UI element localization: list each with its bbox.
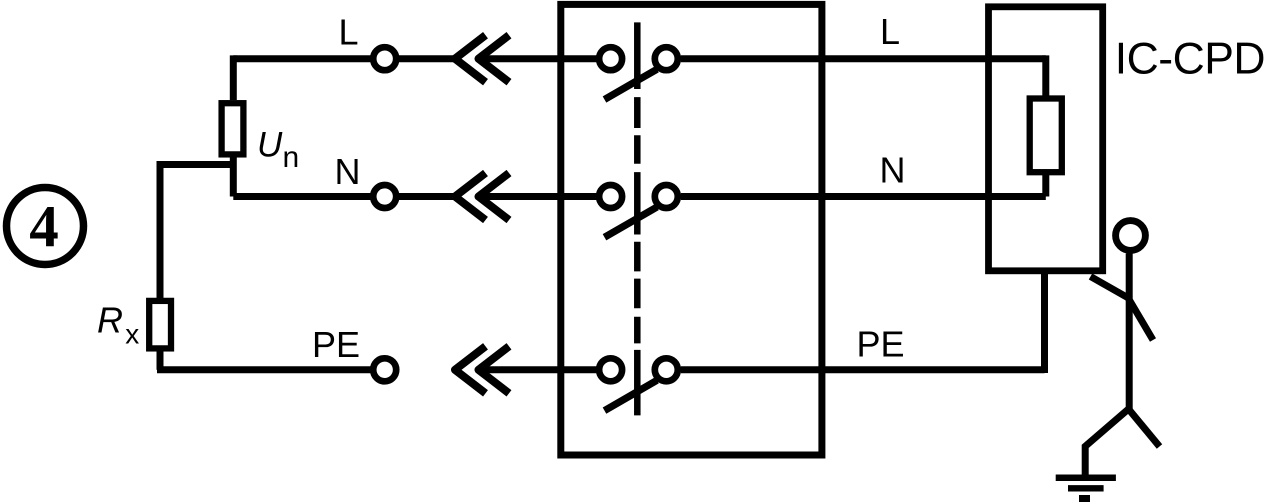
switch blade N: [605, 207, 658, 237]
earth symbol bar 2: [1068, 485, 1104, 491]
svg-text:n: n: [283, 141, 300, 174]
svg-text:R: R: [97, 300, 123, 341]
wire L circle to chevron: [399, 55, 457, 62]
wire PE chevron to switch: [480, 366, 600, 373]
resistor Rx: [149, 301, 171, 349]
dashed actuator line: [634, 22, 641, 415]
earth symbol bar 1: [1056, 475, 1116, 482]
svg-text:U: U: [257, 126, 283, 165]
switch blade PE: [605, 380, 658, 410]
breaker box: [561, 4, 822, 455]
terminal circle L: [373, 47, 396, 70]
person body: [1126, 254, 1133, 413]
wire L switch to IC-CPD: [681, 55, 1046, 62]
chevron arrows PE: [455, 346, 509, 393]
switch contact N right: [655, 185, 678, 208]
person arm touching box: [1091, 277, 1132, 300]
wire L vertical to Un: [230, 55, 237, 100]
wire branch to left: [160, 165, 233, 299]
person leg right: [1129, 409, 1160, 447]
wire PE switch to riser: [681, 366, 1045, 373]
svg-text:N: N: [880, 150, 906, 191]
switch contact L left: [599, 47, 622, 70]
wire N circle to chevron: [399, 193, 457, 200]
svg-text:PE: PE: [312, 324, 360, 365]
resistor Un: [222, 103, 244, 154]
svg-text:L: L: [880, 11, 900, 52]
resistor load in IC-CPD: [1030, 99, 1062, 173]
switch blade L: [605, 69, 658, 99]
IC-CPD box: [989, 7, 1103, 271]
wire N switch to IC-CPD: [681, 193, 1046, 200]
terminal circle N: [373, 185, 396, 208]
wire L drop inside IC-CPD: [1042, 55, 1049, 98]
chevron arrows L: [455, 35, 509, 82]
wire N left horizontal: [233, 193, 371, 200]
wire Rx to PE line: [157, 348, 164, 370]
switch contact L right: [655, 47, 678, 70]
wire L chevron to switch: [480, 55, 600, 62]
switch contact N left: [599, 185, 622, 208]
wire N chevron to switch: [480, 193, 600, 200]
person arm lower: [1129, 299, 1154, 341]
terminal circle PE: [373, 358, 396, 381]
svg-text:PE: PE: [857, 324, 905, 365]
wire Un to N line: [230, 157, 237, 197]
wire PE left horizontal: [157, 366, 371, 373]
wire PE riser: [1041, 271, 1048, 373]
person head: [1116, 221, 1146, 251]
switch contact PE right: [655, 358, 678, 381]
svg-text:L: L: [339, 12, 359, 53]
person leg left: [1085, 409, 1128, 476]
node circle 4 (figure index): [7, 188, 84, 265]
earth symbol bar 3: [1079, 495, 1090, 502]
svg-text:IC-CPD: IC-CPD: [1115, 35, 1265, 84]
svg-text:4: 4: [29, 193, 59, 259]
svg-text:x: x: [125, 319, 139, 350]
wire L left horizontal: [233, 55, 371, 62]
chevron arrows N: [455, 173, 509, 220]
svg-text:N: N: [335, 151, 361, 192]
switch contact PE left: [599, 358, 622, 381]
wire resistor to N inside IC-CPD: [1042, 172, 1049, 196]
